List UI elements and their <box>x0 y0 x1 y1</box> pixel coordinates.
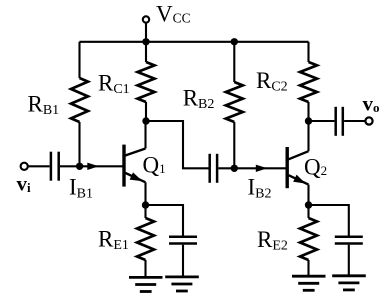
wire VCC stem <box>145 23 147 42</box>
wire RE2 top <box>307 205 309 218</box>
resistor RC1 <box>138 62 155 102</box>
current arrow IB1 <box>87 163 99 170</box>
ground RE1 <box>129 277 163 291</box>
wire RE1 top <box>144 205 146 218</box>
current arrow IB2 <box>256 165 267 172</box>
wire base Q1 <box>80 165 124 167</box>
wire RC1 bottom <box>145 102 147 121</box>
capacitor interstage coupling <box>210 154 217 183</box>
wire base Q2 <box>234 167 286 169</box>
wire coupling cap to node B2 <box>218 167 234 169</box>
wire Q2 emitter <box>307 185 309 205</box>
svg-text:vi: vi <box>17 171 32 195</box>
junction dot node E2 <box>305 201 312 208</box>
capacitor bypass CE2 <box>335 237 363 244</box>
transistor Q2 <box>287 147 308 188</box>
wire RB2 bottom <box>233 122 235 168</box>
wire node C1 to coupling cap <box>146 121 209 168</box>
wire RC2 bottom <box>307 102 309 121</box>
svg-text:RB1: RB1 <box>28 91 60 118</box>
ground CE1 <box>165 277 199 291</box>
svg-text:RC1: RC1 <box>98 70 130 97</box>
capacitor output coupling <box>336 107 343 136</box>
svg-text:RC2: RC2 <box>256 68 288 95</box>
svg-text:Q2: Q2 <box>304 154 327 179</box>
junction dot VCC rail <box>142 38 149 45</box>
wire Q1 emitter <box>144 182 146 205</box>
svg-text:VCC: VCC <box>156 1 191 26</box>
junction dot node C1 <box>142 117 149 124</box>
svg-text:RE2: RE2 <box>257 227 288 254</box>
wire node E2 to bypass cap <box>309 205 349 236</box>
svg-text:IB1: IB1 <box>69 175 93 202</box>
power terminal VCC <box>143 16 149 22</box>
wire RB2 top <box>233 42 235 82</box>
wire Q1 collector <box>144 121 146 149</box>
svg-text:RE1: RE1 <box>98 226 129 253</box>
capacitor bypass CE1 <box>169 237 197 244</box>
wire Q2 collector <box>307 121 309 151</box>
svg-text:RB2: RB2 <box>183 85 215 112</box>
wire top supply rail <box>80 41 309 43</box>
output terminal vo <box>365 117 372 124</box>
junction dot node C2 <box>305 117 312 124</box>
junction dot RB2 top <box>231 38 238 45</box>
wire RE2 to ground <box>307 260 309 276</box>
svg-text:Q1: Q1 <box>143 152 166 177</box>
wire RB1 top <box>78 42 80 78</box>
junction dot node B2 <box>231 165 238 172</box>
resistor RE1 <box>137 218 154 260</box>
wire CE1 to ground <box>182 245 184 277</box>
ground RE2 <box>292 276 326 290</box>
resistor RC2 <box>300 62 317 102</box>
svg-text:IB2: IB2 <box>248 175 272 202</box>
wire input cap to node B1 <box>60 165 80 167</box>
wire RC1 top <box>145 42 147 62</box>
junction dot node E1 <box>142 201 149 208</box>
wire CE2 to ground <box>348 245 350 276</box>
svg-text:vo: vo <box>363 92 380 116</box>
ground CE2 <box>332 276 366 290</box>
resistor RB1 <box>71 78 88 122</box>
wire RE1 to ground <box>144 260 146 277</box>
wire vi to input cap <box>28 165 50 167</box>
junction dot node B1 <box>76 163 83 170</box>
wire node E1 to bypass cap <box>146 205 184 236</box>
capacitor input coupling <box>51 152 59 181</box>
transistor Q1 <box>124 145 146 187</box>
resistor RE2 <box>300 218 317 260</box>
wire node C2 to output cap <box>309 120 335 122</box>
wire RB1 bottom <box>78 122 80 167</box>
resistor RB2 <box>226 82 243 122</box>
wire output cap to vo terminal <box>344 120 365 122</box>
input terminal vi <box>21 163 28 170</box>
wire RC2 top <box>307 42 309 62</box>
